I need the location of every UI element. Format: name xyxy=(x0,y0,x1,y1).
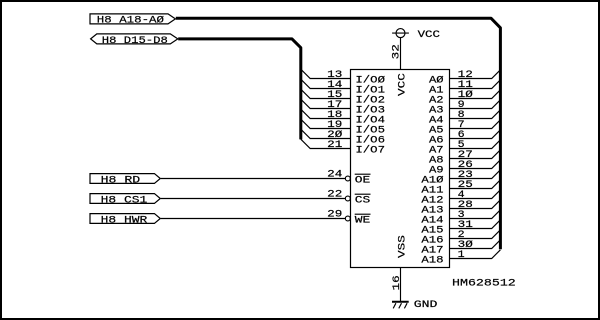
pin 22 /CS with inversion bubble xyxy=(327,190,370,207)
svg-text:OE: OE xyxy=(355,175,371,186)
pin 12 A0 wire xyxy=(429,70,500,87)
pin 5 A7 wire xyxy=(429,140,500,157)
pin 32 VCC wire xyxy=(391,38,408,96)
bus D15-D8 wire xyxy=(178,39,301,139)
svg-text:H8 RD: H8 RD xyxy=(101,175,141,186)
net label H8 CS1 xyxy=(90,194,160,207)
svg-text:H8 D15-D8: H8 D15-D8 xyxy=(102,36,168,47)
svg-text:A18: A18 xyxy=(421,256,443,267)
pin 10 A2 wire xyxy=(429,89,500,107)
VCC supply symbol xyxy=(392,29,440,41)
svg-text:WE: WE xyxy=(355,215,371,226)
pin 21 I/O7 wire xyxy=(301,139,385,157)
pin 7 A5 wire xyxy=(429,120,500,137)
pin 29 /WE with inversion bubble xyxy=(327,210,370,227)
pin 15 I/O2 wire xyxy=(301,89,385,107)
pin 6 A6 wire xyxy=(429,130,500,147)
pin 1 A18 wire xyxy=(421,250,500,267)
svg-text:GND: GND xyxy=(414,300,438,311)
pin 18 I/O4 wire xyxy=(301,109,385,127)
pin 13 I/O0 wire xyxy=(301,69,385,87)
svg-text:H8 A18-AØ: H8 A18-AØ xyxy=(97,15,164,27)
svg-text:1: 1 xyxy=(458,250,465,261)
pin 8 A4 wire xyxy=(429,110,500,127)
pin 4 A12 wire xyxy=(421,190,500,207)
svg-text:29: 29 xyxy=(327,210,342,221)
pin 9 A3 wire xyxy=(429,100,500,117)
pin 30 A17 wire xyxy=(421,239,500,257)
pin 14 I/O1 wire xyxy=(301,79,385,97)
pin 16 VSS wire xyxy=(392,235,408,301)
svg-text:H8 CS1: H8 CS1 xyxy=(101,195,148,206)
pin 3 A14 wire xyxy=(421,210,500,227)
pin 25 A11 wire xyxy=(421,180,500,197)
svg-text:CS: CS xyxy=(355,195,371,206)
pin 31 A15 wire xyxy=(421,220,500,237)
pin 26 A9 wire xyxy=(429,160,500,177)
pin 23 A10 wire xyxy=(421,170,500,187)
net label H8 HWR xyxy=(90,214,160,227)
pin 27 A8 wire xyxy=(429,150,500,167)
svg-text:I/O7: I/O7 xyxy=(355,145,385,157)
net label H8 D15-D8 xyxy=(91,34,178,47)
wire HWR net xyxy=(161,218,346,220)
svg-text:VSS: VSS xyxy=(397,235,408,258)
svg-text:VCC: VCC xyxy=(418,30,440,41)
svg-text:16: 16 xyxy=(392,275,403,290)
wire RD net xyxy=(161,178,346,180)
IC U1 HM628512 body xyxy=(351,70,450,268)
pin 11 A1 wire xyxy=(429,80,500,97)
net label H8 RD xyxy=(90,174,160,187)
ground symbol GND xyxy=(392,300,437,311)
svg-text:21: 21 xyxy=(327,140,342,151)
pin 24 /OE with inversion bubble xyxy=(327,170,370,187)
pin 2 A16 wire xyxy=(421,230,500,247)
svg-text:32: 32 xyxy=(391,44,402,59)
wire CS1 net xyxy=(161,198,346,200)
svg-text:HM628512: HM628512 xyxy=(452,279,516,290)
svg-text:22: 22 xyxy=(327,190,342,201)
pin 19 I/O5 wire xyxy=(301,119,385,137)
pin 20 I/O6 wire xyxy=(301,129,385,147)
svg-text:H8 HWR: H8 HWR xyxy=(101,215,148,226)
bus A18-A0 wire xyxy=(176,18,501,249)
net label H8 A18-A0 xyxy=(90,14,175,27)
IC value label HM628512 xyxy=(452,279,516,290)
pin 17 I/O3 wire xyxy=(301,99,385,117)
pin 28 A13 wire xyxy=(421,200,500,217)
svg-text:VCC: VCC xyxy=(397,73,408,96)
svg-text:24: 24 xyxy=(327,170,342,181)
